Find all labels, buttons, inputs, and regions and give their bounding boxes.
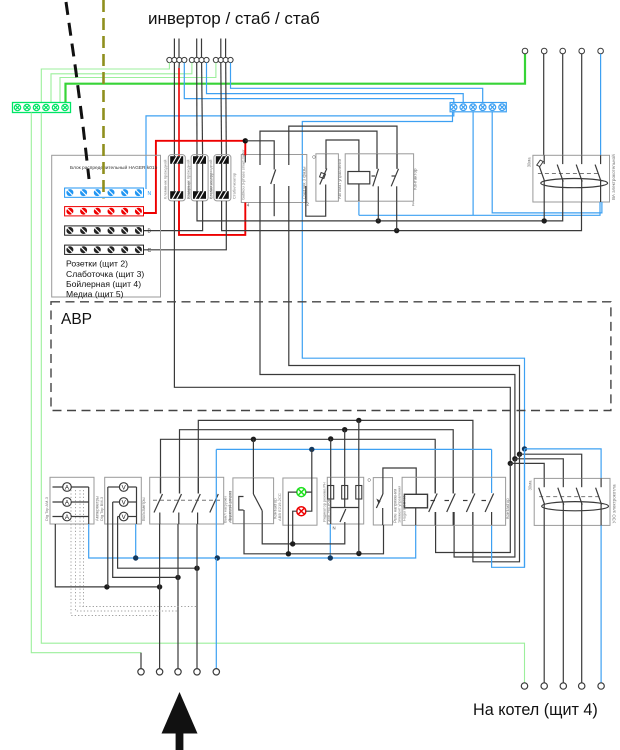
svg-text:Клеммник проходной: Клеммник проходной bbox=[208, 160, 213, 199]
bus bar B (black) bbox=[65, 226, 152, 235]
wire esc c4 blue top bbox=[491, 449, 493, 493]
boiler label bbox=[473, 701, 598, 719]
wire red meter pin4 to T1 bbox=[179, 201, 245, 235]
phase monitor CM-PVE bbox=[323, 477, 364, 524]
wire meter p2 to contactor c1 bbox=[260, 131, 377, 169]
wire meter p4 to contactor c2 bbox=[289, 126, 397, 169]
wire voltmeter p3 out bbox=[118, 524, 197, 568]
svg-text:Розетки (щит 2): Розетки (щит 2) bbox=[66, 259, 128, 269]
wire RCD1 p1 down bbox=[543, 202, 545, 221]
RCD U1 (top right, 30mA) bbox=[526, 154, 616, 202]
junction rcd2 f4 blue bbox=[522, 446, 527, 451]
wire esc c4 blue loop bbox=[492, 449, 525, 567]
svg-text:Вольтметры: Вольтметры bbox=[141, 497, 146, 521]
N terminal block (blue) bbox=[450, 103, 506, 112]
black dashed cable run bbox=[66, 2, 89, 179]
wire voltmeter p2 out bbox=[113, 524, 178, 577]
junction rcd2 f1 bbox=[508, 461, 513, 466]
indicator lamp box HL bbox=[277, 478, 317, 525]
svg-text:ABB E219-2CC: ABB E219-2CC bbox=[277, 493, 282, 521]
RCD U2 (30mA) bbox=[528, 478, 617, 525]
pin label O bbox=[312, 155, 316, 160]
PE terminal block (green) bbox=[13, 103, 71, 113]
HAGER distribution box bbox=[52, 155, 161, 297]
wire fuse3 down bbox=[358, 524, 360, 554]
bus bar A (red) bbox=[65, 207, 144, 216]
AVR label bbox=[61, 311, 92, 328]
wire T2 top-in 2 bbox=[202, 63, 203, 157]
wire T2 top-in 1 bbox=[196, 63, 198, 157]
wire bus phase1 bbox=[197, 201, 563, 221]
load break switch QS1 bbox=[150, 477, 233, 524]
3-phase smart meter M1 bbox=[241, 149, 307, 203]
stub green boiler bbox=[524, 682, 526, 684]
junction avr l2 fuse2 bbox=[342, 427, 347, 432]
wire relay to coil U bbox=[383, 468, 416, 494]
dotted sense 4 bbox=[83, 490, 85, 607]
wire bus phase3 bbox=[144, 201, 227, 250]
junction RCD1 p1 bbox=[542, 218, 547, 223]
svg-text:инвертор / стаб / стаб: инвертор / стаб / стаб bbox=[148, 9, 320, 28]
wire rcd2 feed1 bbox=[510, 463, 544, 478]
output terminals right bbox=[521, 683, 604, 689]
bus bar C (black) bbox=[65, 245, 152, 254]
wire ctl bracket-relay bbox=[244, 524, 384, 554]
svg-text:Контактор: Контактор bbox=[505, 498, 510, 519]
svg-text:Dig Top AM-3: Dig Top AM-3 bbox=[44, 496, 49, 521]
junction fuse3 ctl bbox=[356, 551, 361, 556]
svg-text:Контактор: Контактор bbox=[412, 168, 417, 190]
junction avr l1 fuse1 bbox=[328, 436, 333, 441]
svg-text:Блок распределительный HAGER k: Блок распределительный HAGER k01b bbox=[70, 164, 158, 171]
wire contactor K2 feed bbox=[252, 439, 254, 478]
wire phase2 terminal bbox=[177, 524, 179, 668]
wire blue N-bus feed bbox=[146, 112, 454, 189]
wire to RCD1 pin2 bbox=[562, 54, 564, 156]
wire lamp red out bbox=[293, 511, 297, 544]
junction green lamp bbox=[286, 551, 291, 556]
wire automat to coil bbox=[326, 140, 359, 172]
ammeter box PA1 bbox=[44, 477, 99, 524]
output terminals left bbox=[138, 669, 220, 675]
junction avr l3 fuse3 bbox=[356, 418, 361, 423]
wire contactor c1 down bbox=[377, 201, 379, 221]
incoming cable pair 1 bbox=[174, 39, 179, 58]
wire red bus riser bbox=[144, 141, 246, 213]
feed-through terminal T2 bbox=[185, 155, 213, 201]
wire to RCD1 pin1 bbox=[543, 54, 545, 156]
svg-text:УЗО электрокотла: УЗО электрокотла bbox=[612, 484, 617, 523]
automat control breaker Q2 bbox=[316, 154, 342, 201]
junction blue cmpve bbox=[328, 555, 333, 560]
wire esc c3 loop bbox=[473, 454, 520, 562]
pin label 4 bbox=[247, 203, 250, 208]
wire meter p3 down bbox=[273, 203, 275, 217]
connector circles group 3 bbox=[213, 57, 233, 62]
feed-through terminal T3 bbox=[208, 155, 236, 201]
contactor K1 (top) bbox=[345, 154, 417, 201]
dotted sense 2 bbox=[76, 490, 179, 611]
input arrow bbox=[162, 692, 198, 750]
wire avr line1 bbox=[161, 439, 436, 493]
wire blue N terminal bbox=[215, 558, 217, 668]
wire meter p5 to automat bbox=[306, 201, 326, 216]
stub c3 black bbox=[178, 63, 180, 68]
wire phase3 terminal bbox=[196, 524, 198, 668]
title text инвертор / стаб / стаб bbox=[148, 9, 320, 28]
wire rcd2 feed3 bbox=[520, 454, 582, 478]
wire voltmeter p1 down bbox=[107, 524, 109, 587]
svg-text:Стабилизатор: Стабилизатор bbox=[232, 172, 237, 199]
wire avr line2 bbox=[180, 430, 454, 494]
wire blue coil1 A2 bbox=[358, 202, 360, 215]
wire T3 top-in 1 bbox=[220, 63, 223, 157]
svg-text:Бойлерная (щит 4): Бойлерная (щит 4) bbox=[66, 279, 141, 289]
wire meter p2 down bbox=[260, 203, 515, 459]
wire blue to RCD1 pin4 bbox=[600, 54, 602, 156]
dotted sense 3 bbox=[80, 490, 197, 607]
svg-text:Автомат управления: Автомат управления bbox=[337, 159, 342, 199]
wire avr line3 bbox=[198, 420, 473, 493]
junction rcd2 f2 bbox=[512, 456, 517, 461]
wire red T1 top-in bbox=[178, 68, 180, 156]
connector circles group 2 bbox=[189, 57, 209, 62]
wire rcd2 p4 blue down bbox=[600, 525, 602, 682]
junction avr l1 contactor bbox=[251, 437, 256, 442]
pin label rele bbox=[368, 478, 372, 483]
junction rcd2 f3 bbox=[517, 452, 522, 457]
voltmeter box PV1 bbox=[99, 477, 146, 524]
bus bar N (blue) bbox=[65, 188, 152, 197]
svg-text:Клеммник проходной: Клеммник проходной bbox=[185, 160, 190, 199]
svg-text:ABB CM-PVE: ABB CM-PVE bbox=[327, 498, 331, 522]
wire blue N block pin riser bbox=[472, 112, 474, 216]
junction avr N lamps bbox=[309, 447, 314, 452]
voltage relay KV1 bbox=[373, 478, 397, 525]
svg-text:30ма: 30ма bbox=[528, 480, 533, 491]
wire black dot to meter pin3 bbox=[245, 141, 274, 155]
main contactor ESC463 K3 bbox=[397, 477, 510, 525]
AVR boundary dashed box bbox=[51, 302, 611, 411]
wire bus phase2b bbox=[222, 201, 582, 231]
lamp green HL1 bbox=[297, 488, 306, 497]
svg-text:C: C bbox=[148, 248, 152, 254]
pin label 2 automat bbox=[307, 202, 310, 207]
wire ctl contactor-cmpve bbox=[262, 524, 345, 544]
stub green-terminal bbox=[140, 653, 142, 669]
svg-text:Индикатор режима РН: Индикатор режима РН bbox=[323, 482, 327, 522]
junction blue pole4 bbox=[215, 555, 220, 560]
wire rcd2 feed2 bbox=[515, 459, 563, 479]
wire green g3 bbox=[60, 63, 216, 103]
junction red lamp bbox=[290, 541, 295, 546]
wire blue n2 bbox=[207, 63, 464, 103]
wire rcd2 p3 down bbox=[581, 525, 583, 682]
stub esc c4 black bbox=[491, 512, 493, 525]
wire fuse1 feed bbox=[330, 439, 332, 477]
junction contactor c2 out bbox=[394, 228, 399, 233]
wire ammeter out bbox=[55, 524, 159, 587]
wire rcd2 p1 down bbox=[543, 525, 545, 682]
svg-text:30ма: 30ма bbox=[526, 157, 531, 168]
junction dot red bbox=[243, 138, 248, 143]
wire blue switch pole4 bbox=[215, 449, 217, 558]
pin label 2 contactor bbox=[412, 202, 415, 207]
junction phase1 bottom bbox=[157, 584, 162, 589]
wire bus phase2a bbox=[144, 201, 203, 231]
wire blue block to AVR riser bbox=[302, 112, 524, 568]
svg-text:На котел (щит 4): На котел (щит 4) bbox=[473, 701, 598, 719]
svg-text:Клеммник проходной: Клеммник проходной bbox=[163, 160, 168, 199]
wire contactor c2 down bbox=[396, 201, 398, 230]
top-right connector circles bbox=[522, 48, 603, 54]
wire blue N rail y215 bbox=[359, 202, 600, 215]
wire green main PE (thick) bbox=[66, 54, 526, 103]
wire T1 top-in black bbox=[173, 63, 175, 157]
pin label N cmpve bbox=[333, 526, 336, 531]
connector circles group 1 bbox=[167, 57, 187, 62]
wire fuse2 feed bbox=[344, 430, 346, 478]
svg-text:ВА электрокотельной: ВА электрокотельной bbox=[610, 154, 616, 200]
junction voltmeter p1 bbox=[104, 584, 109, 589]
dotted sense 1 bbox=[71, 490, 160, 616]
junction phase2 bottom bbox=[175, 575, 180, 580]
svg-text:Видимый разрыв: Видимый разрыв bbox=[228, 491, 232, 521]
feed-through terminal T1 bbox=[163, 155, 191, 201]
wire rcd2 feed4 blue bbox=[525, 449, 602, 479]
wire phase1 terminal bbox=[159, 524, 161, 668]
wire lamps common bbox=[306, 449, 312, 511]
lamp red HL2 bbox=[297, 507, 306, 516]
wire T1 phase down bbox=[174, 201, 510, 464]
olive dashed cable run bbox=[102, 0, 105, 199]
wire to RCD1 pin3 bbox=[581, 54, 583, 156]
wire green left inner bbox=[41, 113, 524, 683]
wire avr blue N line bbox=[216, 448, 491, 450]
wire rcd2 p2 down bbox=[562, 525, 564, 682]
HAGER box title bbox=[70, 164, 158, 171]
svg-text:Слаботочка (щит 3): Слаботочка (щит 3) bbox=[66, 269, 144, 279]
wire green left outer bbox=[31, 113, 141, 653]
wire T3 top-in 2 bbox=[225, 63, 228, 157]
junction blue voltmeter bbox=[133, 555, 138, 560]
wire blue voltmeter N bbox=[135, 524, 137, 558]
wire blue cmpve N bbox=[329, 524, 331, 559]
wire fuse3 feed bbox=[358, 420, 360, 477]
circuit list text bbox=[66, 259, 144, 299]
wire meter p4 down bbox=[289, 203, 520, 455]
junction phase3 bottom bbox=[194, 566, 199, 571]
wire lamp green out bbox=[288, 492, 296, 554]
svg-text:Hager ESC463: Hager ESC463 bbox=[402, 495, 406, 521]
wire esc c1 loop bbox=[436, 463, 511, 552]
wire red meter pin1 entry bbox=[244, 141, 246, 156]
wire blue N second rail bbox=[492, 112, 602, 213]
svg-text:Медиа (щит 5): Медиа (щит 5) bbox=[66, 289, 124, 299]
contactor K2 bbox=[228, 478, 277, 524]
junction contactor c1 out bbox=[376, 218, 381, 223]
svg-text:Элемент управления: Элемент управления bbox=[397, 486, 401, 523]
wire esc c2 loop bbox=[454, 459, 515, 557]
wire green g2 bbox=[51, 63, 192, 103]
incoming cable pair 3 bbox=[221, 39, 226, 58]
wire blue n3 bbox=[231, 63, 483, 103]
svg-text:Dig Top BM-3: Dig Top BM-3 bbox=[99, 496, 104, 521]
wire blue n1 bbox=[184, 63, 454, 103]
svg-text:АВР: АВР bbox=[61, 311, 92, 328]
svg-text:N: N bbox=[148, 191, 152, 197]
incoming cable pair 2 bbox=[197, 39, 202, 58]
svg-text:N: N bbox=[333, 526, 336, 531]
wire green g1 bbox=[41, 63, 169, 103]
wire blue N bottom rail bbox=[89, 524, 416, 558]
